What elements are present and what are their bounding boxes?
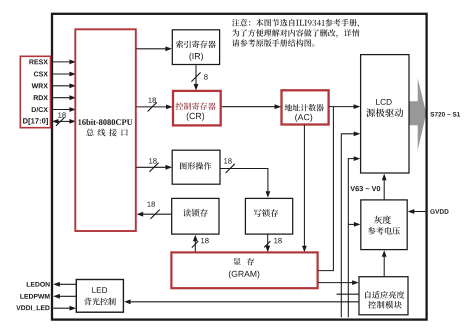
wire AC to LCD driver (329, 104, 360, 109)
wire D/CX to CPU (52, 107, 76, 112)
text LED (92, 287, 107, 293)
block grayscale reference voltage (361, 200, 407, 250)
bus slash readlatch-CPU (151, 210, 160, 219)
block display RAM GRAM (171, 252, 317, 288)
label V63 ~ V0 (350, 186, 380, 191)
bus width 18 (D bus) (58, 112, 66, 117)
text LCD (376, 99, 392, 105)
wire data V4 to LCD (348, 156, 360, 317)
text control module (368, 301, 402, 309)
wire CSX to CPU (52, 72, 76, 77)
wire IR to CR (194, 65, 199, 90)
text adaptive brightness (365, 291, 404, 299)
text 16bit-8080CPU (78, 119, 132, 125)
label RESX (29, 59, 48, 64)
text backlight control (84, 298, 116, 306)
wire RDX to CPU (52, 95, 76, 100)
bus width 18 (writelatch-GRAM) (274, 238, 282, 243)
text reference voltage (368, 227, 400, 235)
note line 1 (232, 19, 359, 27)
text grayscale (374, 216, 391, 224)
bus width 18 (CPU-graphics) (149, 158, 157, 163)
wire V4 branch to grayscale ref (348, 222, 360, 227)
bus width 18 (CPU-CR) (148, 98, 156, 103)
text (AC) (295, 114, 312, 122)
bus slash CPU-CR (148, 102, 157, 111)
bus slash IR-CR (191, 72, 200, 81)
label LEDON (27, 282, 50, 287)
text (GRAM) (229, 271, 259, 279)
text (CR) (187, 113, 204, 121)
outer frame (52, 14, 427, 320)
wire grayscale to LCD (V63-V0) (382, 174, 387, 200)
wire write latch to GRAM (265, 235, 270, 253)
block write latch (245, 198, 292, 234)
bus D[17:0] bidirectional (52, 119, 76, 124)
wire GRAM to AC-LCD bus (318, 107, 334, 271)
MCU signal box (20, 56, 50, 127)
wire VDDI_LED in (53, 306, 76, 311)
label WRX (32, 83, 48, 88)
label GVDD (430, 209, 448, 214)
block adaptive brightness control (359, 277, 408, 315)
wire data V3 to LCD (341, 131, 360, 317)
wire LEDON out (53, 282, 76, 287)
bus width 18 (readlatch-CPU) (147, 202, 155, 207)
label RDX (34, 95, 48, 100)
wire control into CABC (337, 293, 359, 295)
S720-S1 gray block arrow (409, 78, 427, 150)
block 16bit-8080CPU bus interface (75, 29, 136, 231)
note line 2 (232, 29, 360, 37)
wire AC to GRAM (302, 125, 307, 252)
wire GRAM to CABC block (318, 280, 359, 285)
bus slash D[17:0] (56, 117, 64, 125)
wire read latch to CPU (137, 212, 172, 217)
wire GRAM to read latch (193, 235, 198, 253)
block graphics operation (172, 150, 220, 184)
label D[17:0] (23, 118, 48, 125)
wire CR to AC (222, 104, 281, 109)
wire GVDD input (408, 209, 426, 214)
block read latch (172, 198, 219, 234)
wire CPU to IR (136, 46, 172, 51)
block address counter AC (282, 90, 329, 124)
wire CABC to LED control (124, 299, 359, 304)
text graphics operation (180, 162, 211, 170)
label LEDPWM (20, 294, 49, 299)
wire CABC to grayscale ref (382, 250, 387, 276)
bus width 8 (204, 74, 208, 79)
block LCD source driver (361, 55, 409, 173)
wire WRX to CPU (52, 83, 76, 88)
bus slash graphics-writelatch (226, 164, 235, 173)
block LED backlight control (76, 280, 123, 313)
bus width 18 (GRAM-readlatch) (201, 238, 209, 243)
block control register CR (173, 91, 221, 126)
wire graphics op to write latch (220, 169, 270, 198)
label S720 ~ S1 (430, 112, 460, 117)
text index register (176, 40, 216, 48)
label VDDI_LED (16, 305, 49, 311)
label D/CX (32, 107, 48, 112)
wire LEDPWM out (53, 294, 76, 299)
text write latch (254, 209, 278, 217)
block index register IR (172, 30, 219, 65)
wire RESX to CPU (52, 60, 76, 65)
text GRAM title (233, 258, 254, 265)
bus width 18 (graphics-writelatch) (224, 158, 232, 163)
text (IR) (189, 53, 203, 61)
note line 3 (232, 39, 314, 46)
label CSX (34, 72, 48, 77)
bus slash GRAM-readlatch (192, 241, 198, 247)
text address counter (285, 104, 324, 111)
text read latch (183, 209, 208, 217)
text bus interface (86, 129, 128, 137)
text control register (176, 102, 216, 110)
bus slash CPU-graphics (149, 163, 158, 172)
text source driver (366, 108, 403, 117)
wire CPU to graphics op (136, 165, 172, 170)
wire CPU to CR (136, 105, 172, 110)
bus slash writelatch-GRAM (264, 241, 270, 247)
